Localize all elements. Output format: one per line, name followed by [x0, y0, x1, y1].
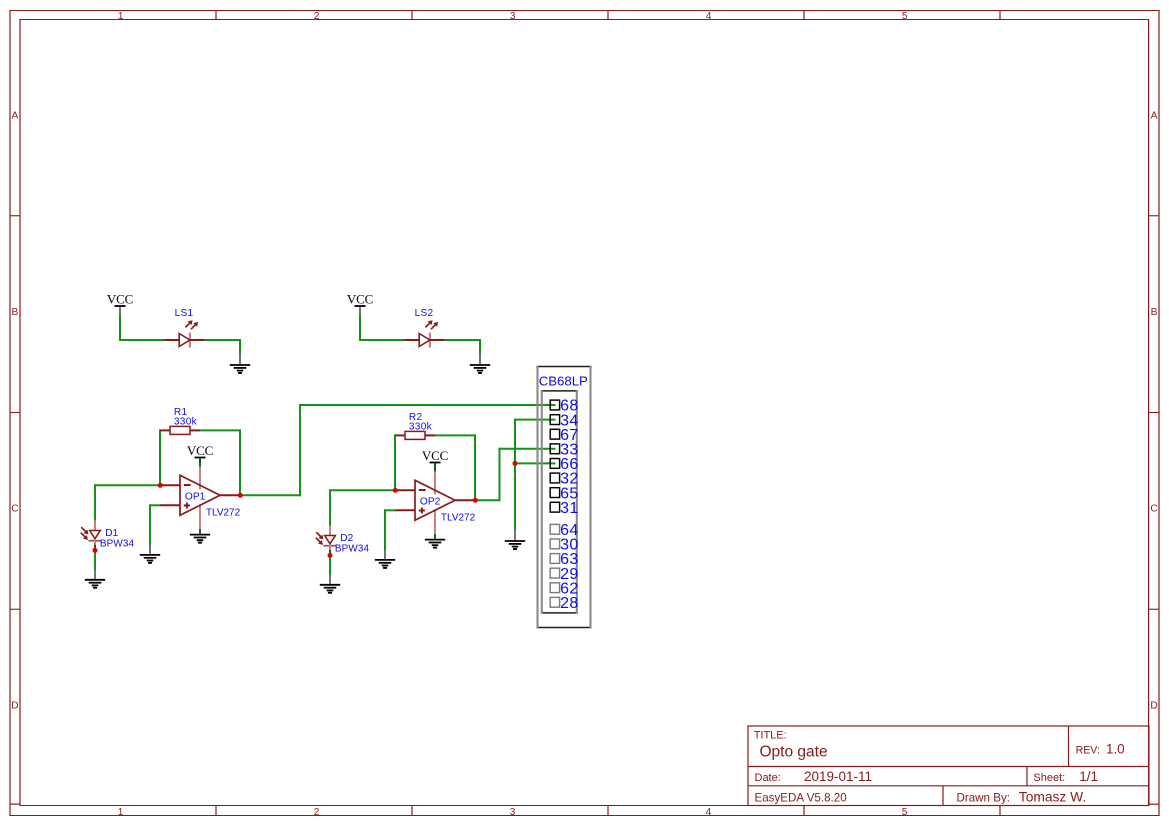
- +IN2 gnd stub: [384, 550, 386, 559]
- wire D1 to ground: [94, 549, 96, 570]
- svg-text:D: D: [1150, 700, 1157, 711]
- connector pin 29: [550, 566, 579, 583]
- ruler row ticks left: [11, 216, 21, 610]
- power flag VCC (LED2): [347, 291, 373, 306]
- connector pin 34: [550, 412, 579, 429]
- svg-text:BPW34: BPW34: [335, 543, 370, 554]
- ruler row ticks right: [1149, 216, 1159, 610]
- connector pin 62: [550, 580, 579, 597]
- ground (LED1): [230, 365, 250, 373]
- svg-text:LS1: LS1: [175, 308, 194, 319]
- ruler column numbers top: [118, 11, 908, 22]
- wire D2 top vertical: [329, 489, 331, 525]
- title block REV divider: [1068, 726, 1070, 767]
- svg-text:5: 5: [902, 807, 908, 818]
- wire R2 right vertical to output: [474, 434, 476, 500]
- wire LED2 to gnd corner: [445, 339, 482, 341]
- title block row line 1: [748, 766, 1149, 768]
- svg-text:A: A: [1151, 110, 1158, 121]
- svg-text:330k: 330k: [409, 421, 433, 432]
- svg-text:1/1: 1/1: [1079, 769, 1098, 784]
- wire OUT2 up: [499, 448, 501, 502]
- op-amp OP2 TLV272: [395, 471, 475, 535]
- D1 anode pin: [94, 521, 96, 531]
- title block right edge emphasis: [1148, 726, 1150, 806]
- gnd2 pin stub: [479, 354, 481, 364]
- frame bottom-left stub: [10, 803, 20, 805]
- ruler column ticks bottom: [216, 806, 1000, 816]
- resistor R2: [395, 431, 435, 439]
- svg-text:B: B: [12, 307, 19, 318]
- power flag VCC (OP1): [187, 443, 213, 458]
- wire OUT2 to pin 33: [499, 448, 556, 450]
- wire LED1 gnd down: [239, 340, 241, 355]
- svg-text:EasyEDA V5.8.20: EasyEDA V5.8.20: [755, 791, 847, 804]
- connector CB68LP inner box: [541, 390, 578, 613]
- svg-text:2019-01-11: 2019-01-11: [804, 769, 872, 784]
- svg-text:Drawn By:: Drawn By:: [957, 791, 1010, 804]
- svg-text:3: 3: [510, 807, 516, 818]
- wire VCC2 to LED2: [359, 339, 405, 341]
- title block DrawnBy divider: [942, 786, 944, 805]
- svg-text:4: 4: [706, 807, 712, 818]
- wire VCC1 down: [119, 315, 121, 342]
- D2 gnd stub: [329, 575, 331, 584]
- wire R1 right vertical to output: [239, 429, 241, 495]
- wire VCC2 down: [359, 315, 361, 342]
- connector pin 63: [550, 551, 579, 568]
- wire OUT1 right: [240, 494, 301, 496]
- D2 cathode pin: [329, 545, 331, 550]
- svg-text:TITLE:: TITLE:: [754, 729, 787, 741]
- wire OUT2 right: [475, 499, 501, 501]
- wire +IN2 vertical: [384, 509, 386, 551]
- connector pin 65: [550, 485, 579, 502]
- svg-text:D: D: [11, 700, 18, 711]
- svg-text:B: B: [1151, 307, 1158, 318]
- D1 gnd stub: [94, 570, 96, 579]
- ground (D2): [320, 585, 340, 593]
- svg-text:Opto gate: Opto gate: [760, 743, 828, 760]
- wire R2 left vertical: [394, 434, 396, 491]
- svg-text:TLV272: TLV272: [206, 508, 241, 519]
- svg-text:VCC: VCC: [347, 291, 373, 306]
- junction dots: [93, 461, 518, 558]
- svg-text:D1: D1: [105, 528, 118, 539]
- photodiode D1: [81, 527, 101, 541]
- wire LED2 gnd down: [479, 340, 481, 355]
- svg-text:REV:: REV:: [1076, 744, 1100, 756]
- resistor R1: [160, 426, 200, 434]
- svg-text:28: 28: [560, 595, 579, 612]
- title block row line 2: [748, 785, 1149, 787]
- svg-text:31: 31: [560, 500, 579, 517]
- VEE stub OP2 (dark green): [434, 534, 436, 538]
- svg-text:5: 5: [902, 11, 908, 22]
- D1 cathode stub (dark green): [94, 545, 96, 548]
- connector pin 64: [550, 522, 579, 539]
- wire R1 left vertical: [159, 429, 161, 486]
- svg-text:A: A: [12, 110, 19, 121]
- svg-text:C: C: [11, 504, 18, 515]
- svg-text:4: 4: [706, 11, 712, 22]
- VEE stub OP1 (dark green): [199, 529, 201, 533]
- connector pin 66: [550, 456, 579, 473]
- wire D2 to inverting input: [329, 489, 396, 491]
- wire LED1 to gnd corner: [205, 339, 242, 341]
- VCC pin stub (gray): [119, 307, 121, 316]
- LED LS1: [165, 320, 205, 347]
- svg-text:OP1: OP1: [185, 491, 206, 502]
- gnd1 pin stub: [239, 354, 241, 364]
- gnd net stub: [514, 530, 516, 540]
- connector pin 32: [550, 471, 579, 488]
- svg-text:2: 2: [314, 11, 320, 22]
- svg-text:Tomasz W.: Tomasz W.: [1019, 789, 1086, 804]
- svg-text:VCC: VCC: [422, 448, 448, 463]
- svg-text:C: C: [1150, 504, 1157, 515]
- wire OUT1 to pin 68: [299, 404, 556, 406]
- wire gnd to pin 34: [514, 419, 556, 421]
- ground (+IN2): [375, 560, 395, 568]
- wire +IN1 vertical: [149, 504, 151, 546]
- svg-text:D2: D2: [340, 533, 353, 544]
- connector pin 31: [550, 500, 579, 517]
- op-amp OP1 TLV272: [160, 466, 240, 530]
- connector pin 67: [550, 427, 579, 444]
- wire VCC1 to LED1: [119, 339, 165, 341]
- connector pin 33: [550, 442, 579, 459]
- LED LS2: [405, 320, 445, 347]
- wire R1 right horizontal: [200, 429, 241, 431]
- ground (OP2 VEE): [425, 540, 445, 548]
- svg-text:CB68LP: CB68LP: [539, 374, 588, 389]
- title block outline: [748, 726, 1149, 806]
- connector pin 28: [550, 595, 579, 612]
- svg-text:TLV272: TLV272: [441, 513, 476, 524]
- +IN1 gnd stub: [149, 545, 151, 554]
- svg-text:2: 2: [314, 807, 320, 818]
- ground (pins 34/66): [505, 541, 525, 549]
- wire D1 to inverting input: [94, 484, 161, 486]
- svg-text:BPW34: BPW34: [100, 538, 135, 549]
- ruler column numbers bottom: [118, 807, 908, 818]
- svg-text:LS2: LS2: [415, 308, 434, 319]
- D2 cathode stub (dark green): [329, 550, 331, 553]
- wire +IN2 horizontal: [384, 509, 396, 511]
- svg-text:OP2: OP2: [420, 496, 441, 507]
- svg-text:VCC: VCC: [187, 443, 213, 458]
- ground (OP1 VEE): [190, 535, 210, 543]
- D1 cathode pin: [94, 540, 96, 545]
- connector pin 30: [550, 537, 579, 554]
- ruler column ticks top: [216, 11, 1000, 20]
- svg-text:3: 3: [510, 11, 516, 22]
- svg-text:1: 1: [118, 807, 124, 818]
- ruler row letters left: [11, 110, 18, 711]
- svg-text:Date:: Date:: [755, 772, 781, 784]
- wire OUT1 up: [299, 404, 301, 496]
- ground (LED2): [470, 365, 490, 373]
- ground (D1): [85, 580, 105, 588]
- connector CB68LP outer box: [536, 366, 591, 628]
- svg-text:1.0: 1.0: [1106, 742, 1125, 757]
- power flag VCC (OP2): [422, 448, 448, 463]
- svg-text:330k: 330k: [174, 416, 198, 427]
- wire D2 to ground: [329, 554, 331, 575]
- ruler row letters right: [1150, 110, 1157, 711]
- connector pin 68: [550, 398, 579, 415]
- wire +IN1 horizontal: [149, 504, 161, 506]
- wire gnd vertical x515: [514, 419, 516, 531]
- title block Sheet divider: [1026, 767, 1028, 786]
- svg-text:VCC: VCC: [107, 291, 133, 306]
- wire D1 top vertical: [94, 484, 96, 520]
- svg-text:1: 1: [118, 11, 124, 22]
- wire R2 right horizontal: [435, 434, 476, 436]
- VCC2 pin stub (gray): [359, 307, 361, 316]
- photodiode D2: [316, 532, 336, 546]
- power flag VCC (LED1): [107, 291, 133, 306]
- wire gnd to pin 66: [515, 462, 556, 464]
- VCC stub OP2 (dark green): [434, 463, 436, 471]
- D2 anode pin: [329, 526, 331, 536]
- VCC stub OP1 (dark green): [199, 458, 201, 466]
- ground (+IN1): [140, 555, 160, 563]
- svg-text:Sheet:: Sheet:: [1033, 772, 1065, 784]
- frame bottom-right stub: [1148, 803, 1160, 805]
